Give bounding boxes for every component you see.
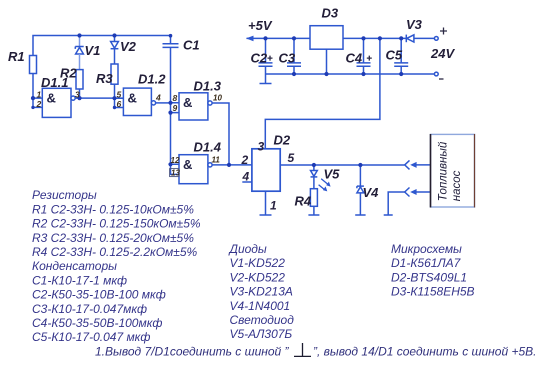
svg-text:3: 3: [75, 89, 80, 99]
svg-text:2: 2: [36, 99, 42, 109]
svg-text:”, вывод 14/D1 соединить с ши: ”, вывод 14/D1 соединить с шиной +5В.: [313, 345, 536, 359]
svg-text:&: &: [128, 90, 137, 105]
svg-text:Резисторы: Резисторы: [32, 188, 97, 202]
svg-text:C1: C1: [183, 38, 200, 53]
svg-text:D3: D3: [322, 6, 339, 21]
svg-text:11: 11: [212, 155, 221, 164]
svg-text:С1-К10-17-1 мкф: С1-К10-17-1 мкф: [32, 273, 127, 287]
svg-text:насос: насос: [451, 170, 463, 201]
svg-text:Конденсаторы: Конденсаторы: [32, 259, 117, 273]
svg-text:5: 5: [117, 90, 122, 100]
svg-text:9: 9: [173, 103, 178, 113]
svg-text:3: 3: [258, 140, 265, 154]
svg-text:&: &: [47, 91, 56, 106]
svg-text:V4-1N4001: V4-1N4001: [230, 299, 291, 313]
svg-text:1: 1: [37, 89, 42, 99]
svg-text:V4: V4: [363, 185, 380, 200]
svg-text:С4-К50-35-50В-100мкф: С4-К50-35-50В-100мкф: [32, 316, 162, 330]
svg-text:V5: V5: [324, 167, 341, 182]
svg-text:C4: C4: [346, 51, 363, 66]
svg-text:R1 С2-33Н- 0.125-10кОм±5%: R1 С2-33Н- 0.125-10кОм±5%: [32, 202, 194, 216]
svg-text:10: 10: [213, 94, 222, 103]
svg-text:R3: R3: [96, 71, 113, 86]
svg-text:R1: R1: [8, 49, 25, 64]
svg-text:V5-АЛ307Б: V5-АЛ307Б: [230, 327, 293, 341]
svg-text:R3 С2-33Н- 0.125-20кОм±5%: R3 С2-33Н- 0.125-20кОм±5%: [32, 231, 194, 245]
svg-text:D1-К561ЛА7: D1-К561ЛА7: [391, 256, 462, 270]
svg-text:D2-BTS409L1: D2-BTS409L1: [391, 270, 467, 284]
svg-text:V2: V2: [120, 39, 137, 54]
svg-text:C3: C3: [279, 51, 296, 66]
svg-text:Микросхемы: Микросхемы: [391, 242, 462, 256]
svg-text:&: &: [183, 157, 192, 172]
svg-text:12: 12: [171, 156, 180, 165]
svg-text:+5V: +5V: [248, 18, 273, 33]
svg-text:D2: D2: [274, 133, 291, 148]
svg-text:V3: V3: [406, 17, 423, 32]
svg-text:D1.3: D1.3: [194, 79, 222, 94]
svg-text:С3-К10-17-0.047мкф: С3-К10-17-0.047мкф: [32, 302, 147, 316]
svg-text:13: 13: [171, 168, 180, 177]
svg-text:R4 С2-33Н- 0.125-2.2кОм±5%: R4 С2-33Н- 0.125-2.2кОм±5%: [32, 245, 198, 259]
svg-text:D1.1: D1.1: [41, 75, 68, 90]
svg-text:С2-К50-35-10В-100 мкф: С2-К50-35-10В-100 мкф: [32, 288, 166, 302]
svg-text:V1: V1: [85, 43, 101, 58]
svg-text:Топливный: Топливный: [438, 141, 450, 201]
svg-text:1: 1: [270, 199, 277, 213]
svg-text:5: 5: [288, 151, 295, 165]
svg-text:Диоды: Диоды: [228, 242, 267, 256]
svg-text:1.Вывод 7/D1соединить с шиной: 1.Вывод 7/D1соединить с шиной ”: [95, 345, 290, 359]
svg-text:D3-К1158ЕН5В: D3-К1158ЕН5В: [391, 285, 475, 299]
svg-text:С5-К10-17-0.047 мкф: С5-К10-17-0.047 мкф: [32, 330, 150, 344]
svg-text:8: 8: [173, 93, 178, 103]
svg-text:V1-KD522: V1-KD522: [230, 256, 286, 270]
svg-text:4: 4: [242, 170, 250, 184]
svg-text:V2-KD522: V2-KD522: [230, 270, 286, 284]
svg-text:C2: C2: [251, 51, 268, 66]
svg-text:V3-KD213A: V3-KD213A: [230, 285, 293, 299]
svg-text:Светодиод: Светодиод: [230, 313, 295, 327]
svg-text:C5: C5: [386, 48, 403, 63]
svg-text:R4: R4: [295, 194, 312, 209]
svg-text:4: 4: [155, 93, 161, 103]
svg-text:24V: 24V: [430, 46, 455, 61]
svg-text:R2 С2-33Н- 0.125-150кОм±5%: R2 С2-33Н- 0.125-150кОм±5%: [32, 217, 201, 231]
svg-text:6: 6: [117, 99, 122, 109]
svg-text:D1.4: D1.4: [194, 140, 222, 155]
svg-text:D1.2: D1.2: [138, 72, 166, 87]
svg-text:&: &: [183, 95, 192, 110]
svg-text:2: 2: [241, 153, 249, 167]
